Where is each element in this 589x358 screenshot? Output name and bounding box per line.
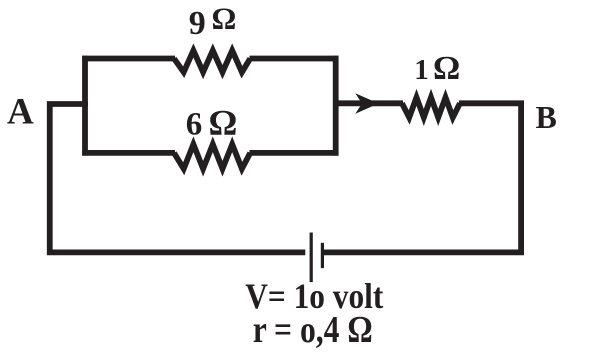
- battery cell: long plate: [310, 233, 313, 283]
- wire: bottom branch right lead: [250, 150, 339, 156]
- svg-text:A: A: [7, 91, 34, 132]
- resistor 1 ohm (zigzag): [402, 97, 460, 117]
- wire: parallel-box right vertical: [333, 56, 339, 156]
- svg-text:B: B: [536, 99, 557, 135]
- wire: top branch left lead: [82, 56, 175, 62]
- resistor 6 ohm (zigzag): [174, 144, 250, 169]
- svg-text:Ω: Ω: [209, 102, 238, 142]
- svg-text:6: 6: [186, 106, 203, 142]
- current arrow: [355, 93, 378, 114]
- wire: parallel-box left vertical: [82, 56, 88, 156]
- battery cell: short plate: [321, 243, 324, 268]
- wire: bottom branch left lead: [82, 150, 175, 156]
- svg-text:Ω: Ω: [433, 50, 460, 87]
- svg-text:Ω: Ω: [212, 0, 237, 35]
- wire: bottom-right run + right vertical + top run to 1-ohm: [324, 103, 521, 252]
- resistor 9 ohm (zigzag): [174, 51, 250, 73]
- svg-text:r = o,4 Ω: r = o,4 Ω: [253, 309, 373, 351]
- wire: middle run from box to 1-ohm resistor: [336, 100, 403, 106]
- svg-text:9: 9: [189, 5, 206, 42]
- wire: top branch right lead: [250, 56, 339, 62]
- wire: node A stub + left vertical + bottom-left run: [50, 104, 306, 252]
- svg-text:1: 1: [414, 54, 429, 86]
